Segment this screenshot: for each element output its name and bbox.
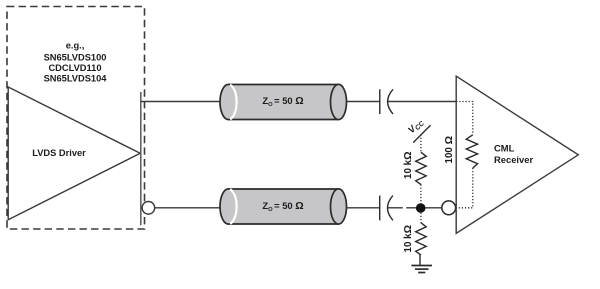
svg-text:CDCLVD110: CDCLVD110: [48, 63, 101, 73]
dotted lead R1 to node: [420, 185, 422, 204]
resistor R2 10k: [416, 223, 427, 255]
svg-text:10 kΩ: 10 kΩ: [402, 225, 414, 253]
wire TL1 to C1: [347, 101, 380, 103]
svg-text:Receiver: Receiver: [494, 154, 533, 165]
svg-text:CML: CML: [494, 143, 515, 154]
driver output bar wire: [140, 92, 142, 225]
ground: [411, 266, 432, 273]
dotted lead node to R2: [420, 213, 422, 223]
transmission line TL2 body: [220, 189, 347, 224]
LVDS driver triangle: [8, 87, 140, 220]
junction node: [416, 203, 426, 213]
capacitor C1: [380, 89, 393, 114]
inverting output bubble: [142, 202, 155, 215]
svg-text:LVDS Driver: LVDS Driver: [32, 148, 86, 158]
svg-text:e.g.,: e.g.,: [66, 40, 85, 50]
svg-text:100 Ω: 100 Ω: [443, 136, 455, 164]
TL2 value label Zo = 50 ohm: [262, 200, 303, 213]
TL1 value label Zo = 50 ohm: [262, 95, 303, 108]
wire segment to node: [406, 207, 442, 209]
driver dashed box: [7, 7, 145, 230]
svg-text:SN65LVDS104: SN65LVDS104: [44, 73, 108, 83]
receiver input bubble: [442, 201, 456, 215]
dotted lead Vcc to R1: [420, 135, 422, 153]
Vcc supply symbol: [405, 116, 430, 143]
svg-text:SN65LVDS100: SN65LVDS100: [44, 52, 107, 62]
dotted net top into receiver: [456, 102, 473, 135]
CML Receiver label: [494, 143, 533, 165]
wire driver top output: [141, 101, 221, 103]
ground lead wire: [419, 255, 421, 266]
CML receiver triangle: [456, 76, 578, 233]
svg-text:10 kΩ: 10 kΩ: [402, 152, 414, 180]
wire C2 to junction: [387, 207, 403, 209]
part numbers label: [44, 40, 108, 83]
dotted net bottom inside receiver: [456, 168, 473, 208]
wire driver bottom output: [155, 207, 221, 209]
transmission line TL1 body: [220, 84, 347, 119]
resistor 100 ohm: [466, 135, 477, 168]
wire TL2 to C2: [347, 207, 380, 209]
wire C1 to receiver: [387, 101, 456, 103]
resistor R1 10k: [416, 152, 427, 184]
capacitor C2: [380, 196, 393, 221]
